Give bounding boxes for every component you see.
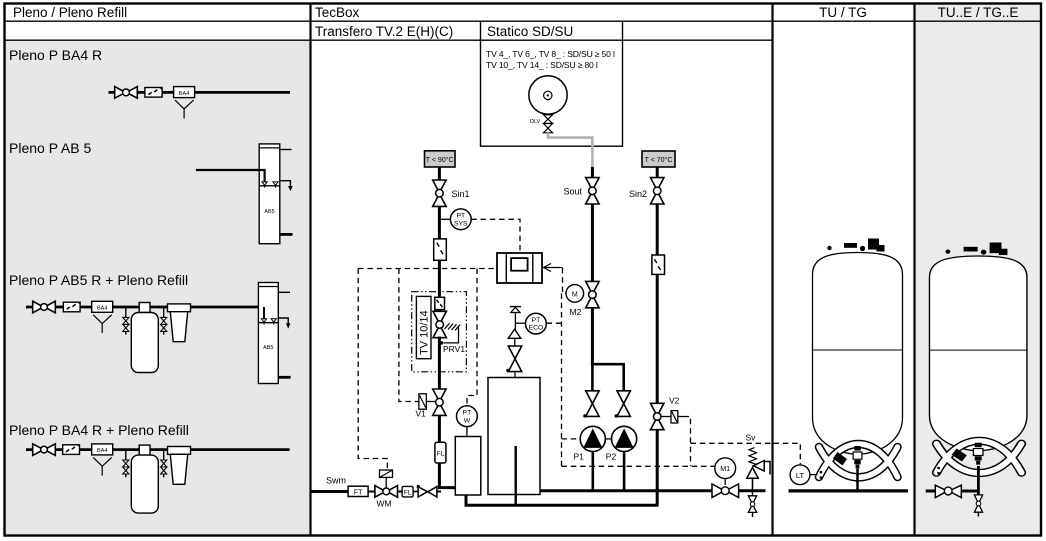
statico content box xyxy=(481,40,623,146)
wire Sout pipe2 xyxy=(591,308,594,366)
T90 box xyxy=(425,151,456,167)
ball valve row1 xyxy=(115,87,138,99)
flow limiter FL vertical xyxy=(435,442,446,463)
ball valve row4 xyxy=(33,444,56,456)
valve P1 suction xyxy=(586,391,599,417)
tundish row4 xyxy=(93,457,112,475)
wire TU..E horizontal xyxy=(926,490,979,493)
wire pipe5 elbow xyxy=(439,463,455,488)
valve DLV xyxy=(544,115,553,124)
refill branch valve A row4 xyxy=(125,450,127,461)
svg-text:BA4: BA4 xyxy=(97,448,107,454)
wire pump outlets xyxy=(591,452,594,492)
refill branch valve B row4 xyxy=(163,450,165,461)
svg-text:TV 10_, TV 14_ : SD/SU ≥ 80 l: TV 10_, TV 14_ : SD/SU ≥ 80 l xyxy=(486,60,598,70)
svg-text:TV 10/14: TV 10/14 xyxy=(419,310,431,355)
backflow preventer BA4 row4 xyxy=(92,444,113,455)
svg-text:Pleno P BA4 R + Pleno Refill: Pleno P BA4 R + Pleno Refill xyxy=(9,422,189,438)
gray overflow pipe xyxy=(548,133,592,169)
dash Sv to LT xyxy=(774,443,801,464)
wire row2 top outlet xyxy=(280,149,292,151)
svg-text:Pleno P AB 5: Pleno P AB 5 xyxy=(9,140,91,156)
svg-text:SYS: SYS xyxy=(454,220,468,227)
backflow preventer BA4 row3 xyxy=(92,301,113,312)
water level row2 xyxy=(260,185,280,187)
check valve xyxy=(417,485,420,488)
svg-text:AB5: AB5 xyxy=(263,345,273,351)
refill cartridge row3 xyxy=(139,303,150,313)
wire Sin2 stub xyxy=(656,167,659,181)
refill branch valve B row3 xyxy=(163,307,165,318)
valve M2 xyxy=(586,281,599,307)
svg-text:T < 70°C: T < 70°C xyxy=(645,156,673,164)
svg-text:Sv: Sv xyxy=(746,433,757,443)
svg-text:WM: WM xyxy=(377,499,392,509)
ground line xyxy=(789,489,909,492)
drain valve below Sv xyxy=(752,491,754,497)
control dashes trunk xyxy=(358,219,771,469)
drain line TU xyxy=(856,469,859,491)
dash PT ECO stub xyxy=(547,322,562,324)
sensor PT ECO xyxy=(515,322,525,324)
svg-text:Sin2: Sin2 xyxy=(629,189,647,199)
svg-text:Sout: Sout xyxy=(563,186,582,196)
valve degas xyxy=(508,346,521,372)
sensor LT xyxy=(790,465,810,485)
dash controller to M2 xyxy=(563,268,566,293)
dash V1 branch xyxy=(399,269,419,402)
svg-text:TV 4_, TV 6_, TV 8_ : SD/SU ≥: TV 4_, TV 6_, TV 8_ : SD/SU ≥ 50 l xyxy=(486,49,615,59)
left column gray background xyxy=(5,40,310,534)
dash WM branch xyxy=(358,269,387,470)
controller U1 xyxy=(497,253,542,283)
svg-text:BA4: BA4 xyxy=(179,91,189,97)
divider TU/TU..E xyxy=(913,4,915,536)
ball valve row3 xyxy=(33,301,56,313)
vent triangle xyxy=(508,329,521,338)
wire lower pipe xyxy=(466,495,659,506)
dash P1-P2 stub xyxy=(606,438,612,440)
svg-text:Swm: Swm xyxy=(326,476,346,486)
svg-text:M: M xyxy=(572,291,578,298)
svg-text:DLV: DLV xyxy=(530,119,541,125)
divider TecBox/TU xyxy=(771,4,773,536)
svg-text:LT: LT xyxy=(796,471,805,480)
svg-text:PT: PT xyxy=(456,213,465,220)
statico vessel circle xyxy=(529,76,567,114)
spring PRV1 xyxy=(445,323,461,330)
dash P1 stub xyxy=(562,438,580,440)
wire Sin2 pipe3 xyxy=(656,429,659,505)
svg-text:P2: P2 xyxy=(606,452,617,462)
svg-text:M2: M2 xyxy=(570,307,582,317)
break tank AB5 row2 xyxy=(259,144,280,244)
svg-text:AB5: AB5 xyxy=(264,209,274,215)
header row2 line xyxy=(4,39,772,41)
wire row4 main line xyxy=(26,448,290,451)
refill branch valve A row3 xyxy=(125,307,127,318)
flow sight glass Sin1 xyxy=(434,239,447,260)
svg-text:PT: PT xyxy=(532,317,541,324)
valve P2 suction xyxy=(617,391,630,417)
wire sout stub xyxy=(591,167,594,178)
flow sight glass Sin2 xyxy=(652,255,665,274)
wire row2 inlet xyxy=(196,170,265,182)
dip tube xyxy=(515,446,517,505)
bracket PRV1 xyxy=(444,327,459,343)
wire Sin1 stub xyxy=(438,167,441,181)
pump P2 xyxy=(612,426,637,451)
svg-text:TU..E / TG..E: TU..E / TG..E xyxy=(938,5,1019,20)
svg-text:P1: P1 xyxy=(573,452,584,462)
drain pipe TU..E xyxy=(977,466,980,495)
tundish row1 xyxy=(175,100,194,118)
flow limiter FL small xyxy=(402,486,413,497)
svg-text:Pleno P AB5 R + Pleno Refill: Pleno P AB5 R + Pleno Refill xyxy=(9,272,188,288)
flow transducer FT xyxy=(348,486,368,496)
wire pipe4 xyxy=(438,415,441,442)
svg-text:Pleno P BA4 R: Pleno P BA4 R xyxy=(9,47,102,63)
dash PT W branch xyxy=(467,269,477,406)
header row1 line xyxy=(4,20,1041,22)
TV 10/14 label box xyxy=(416,296,431,358)
divider Transfero/Statico row2 xyxy=(480,21,482,40)
sensor PT W xyxy=(457,406,478,427)
svg-text:Sin1: Sin1 xyxy=(452,189,470,199)
motor M2 xyxy=(566,285,584,303)
valve Sin1 xyxy=(433,180,446,206)
wire upper main pipe xyxy=(540,489,766,492)
svg-text:W: W xyxy=(464,417,471,424)
divider Statico right row2 xyxy=(622,21,624,40)
valve WM motorized xyxy=(375,486,398,498)
statico gray pipe down + valve Sout xyxy=(586,178,599,204)
dash Sv line xyxy=(691,442,772,444)
svg-text:V1: V1 xyxy=(416,409,427,419)
wire Sin1 pipe2 xyxy=(438,260,441,312)
svg-text:V2: V2 xyxy=(669,396,680,406)
dash bottom horizontal to M1 xyxy=(562,465,715,467)
water meter row1 xyxy=(145,88,162,98)
degassing tank (big) xyxy=(488,378,540,495)
vessel TU xyxy=(813,239,903,479)
svg-text:PT: PT xyxy=(463,410,472,417)
motor valve M1 xyxy=(715,458,736,479)
wire Sin1 pipe xyxy=(438,206,441,240)
svg-text:Transfero TV.2 E(H)(C): Transfero TV.2 E(H)(C) xyxy=(315,24,453,39)
water tank (small) xyxy=(455,437,481,496)
water meter row4 xyxy=(63,445,80,455)
svg-text:TecBox: TecBox xyxy=(315,5,360,20)
svg-text:PRV1: PRV1 xyxy=(443,344,465,354)
svg-text:FL: FL xyxy=(404,489,412,496)
filter funnel row4 xyxy=(168,447,191,455)
svg-text:ECO: ECO xyxy=(529,325,544,332)
pump P1 xyxy=(580,426,605,451)
dash M2 to pumps vertical xyxy=(561,293,563,466)
break tank AB5 row3 xyxy=(258,283,278,384)
wire Sin2 pipe2 xyxy=(656,274,659,404)
tundish row3 xyxy=(93,315,112,333)
drain valve TU..E xyxy=(974,495,982,512)
TV zone dash-dot box xyxy=(412,292,467,372)
flow orifice small xyxy=(435,297,445,309)
dash PT SYS to controller xyxy=(471,219,520,252)
dash trunk horizontal xyxy=(358,268,497,270)
valve PRV1 xyxy=(433,311,446,337)
dash V2 branch xyxy=(684,417,691,467)
svg-text:Pleno / Pleno Refill: Pleno / Pleno Refill xyxy=(13,5,127,20)
water meter row3 xyxy=(63,302,80,312)
svg-text:M1: M1 xyxy=(720,464,730,473)
divider Pleno/TecBox xyxy=(309,4,311,536)
wire row2 bottom outlet xyxy=(280,233,293,236)
svg-text:Statico SD/SU: Statico SD/SU xyxy=(487,24,573,39)
wire pump header xyxy=(592,364,623,391)
wire row3 main line xyxy=(26,306,258,309)
vessel TU..E xyxy=(929,242,1026,474)
refill cartridge row4 xyxy=(139,445,150,455)
svg-text:TU / TG: TU / TG xyxy=(819,5,867,20)
valve Sin2 xyxy=(651,178,664,204)
svg-text:FT: FT xyxy=(354,489,363,496)
ball valve TU..E xyxy=(935,485,961,497)
TU..E column gray background xyxy=(915,4,1041,534)
svg-text:FL: FL xyxy=(437,451,445,458)
svg-text:T < 90°C: T < 90°C xyxy=(426,156,454,164)
svg-text:BA4: BA4 xyxy=(97,306,107,312)
wire pipe3 xyxy=(438,337,441,390)
overflow row2 xyxy=(280,181,291,187)
valve V2 xyxy=(651,403,664,429)
vent assembly on degassing tank xyxy=(510,306,521,308)
controller arrow xyxy=(545,267,563,269)
filter funnel row3 xyxy=(168,304,191,312)
wire row1 main line xyxy=(109,91,291,94)
valve V1 xyxy=(433,389,446,415)
wire Sin2 pipe xyxy=(656,204,659,256)
wire Sout pipe xyxy=(591,204,594,283)
backflow preventer BA4 row1 xyxy=(174,87,195,98)
T70 box xyxy=(642,151,675,167)
sensor PT SYS xyxy=(441,218,450,220)
